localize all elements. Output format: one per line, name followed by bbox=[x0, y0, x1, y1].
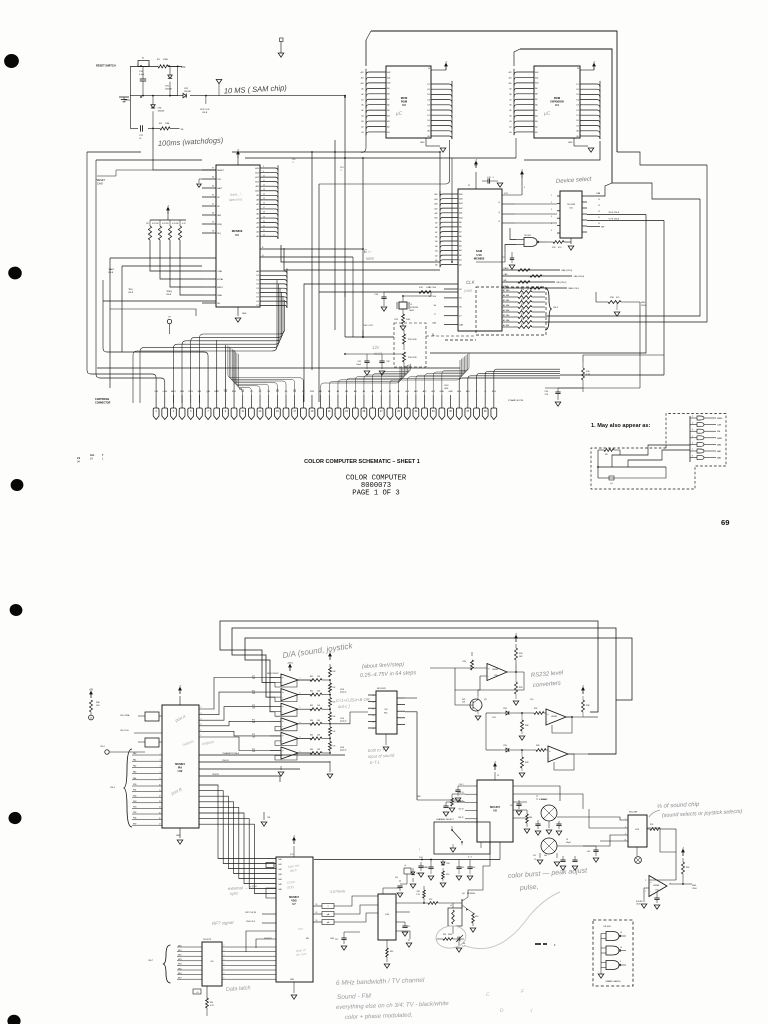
svg-text:*RS232: *RS232 bbox=[212, 774, 220, 776]
gnd u16 area bbox=[408, 939, 410, 941]
connector riser pin 7 bbox=[103, 280, 208, 395]
appear inner bus bbox=[689, 416, 691, 462]
U7 VCC bbox=[293, 846, 295, 857]
svg-text:*SCS CN-8: *SCS CN-8 bbox=[608, 212, 620, 214]
svg-text:23: 23 bbox=[263, 234, 265, 236]
svg-text:0.1μF: 0.1μF bbox=[139, 74, 145, 76]
channel select box bbox=[434, 822, 490, 854]
svg-text:CN-8: CN-8 bbox=[97, 182, 103, 185]
svg-text:15: 15 bbox=[598, 193, 600, 195]
svg-text:1: 1 bbox=[551, 195, 552, 197]
svg-text:A10: A10 bbox=[535, 82, 538, 85]
resistor R52 bbox=[428, 902, 438, 905]
svg-text:A2: A2 bbox=[256, 226, 258, 229]
svg-text:30: 30 bbox=[316, 920, 318, 922]
wire trap link bbox=[583, 845, 596, 847]
svg-text:SPARE GATES: SPARE GATES bbox=[605, 980, 621, 983]
ground top-center bbox=[280, 38, 284, 42]
ground dac 2 bbox=[280, 766, 282, 770]
svg-text:Q: Q bbox=[262, 255, 264, 257]
svg-text:47: 47 bbox=[527, 319, 529, 321]
wire U11 out 3 bbox=[587, 220, 664, 222]
svg-text:11: 11 bbox=[263, 180, 265, 182]
svg-text:MC6883: MC6883 bbox=[474, 257, 485, 261]
capacitor C46 bbox=[556, 824, 561, 826]
wire trunk h368 bbox=[97, 367, 460, 369]
U1 right data pin fan bbox=[260, 268, 287, 308]
U10 memory pins and resistor array bbox=[502, 291, 518, 293]
connector riser wires addr group 2 bbox=[390, 360, 460, 395]
svg-text:LM386: LM386 bbox=[653, 885, 660, 887]
svg-text:D0: D0 bbox=[576, 120, 578, 122]
svg-text:1N4148: 1N4148 bbox=[165, 88, 172, 90]
svg-text:R61: R61 bbox=[210, 1002, 213, 1004]
U12 ground bbox=[179, 828, 181, 838]
resistor R40 bbox=[536, 749, 546, 752]
svg-text:A0: A0 bbox=[256, 235, 258, 238]
wire rs232 inputs from left bbox=[430, 667, 455, 669]
U9 right pins bbox=[397, 698, 405, 724]
svg-text:D0: D0 bbox=[427, 120, 429, 122]
svg-text:3300: 3300 bbox=[448, 934, 452, 936]
svg-text:A7: A7 bbox=[387, 98, 389, 101]
svg-text:A11: A11 bbox=[387, 76, 390, 79]
svg-text:74LS02: 74LS02 bbox=[524, 235, 532, 237]
svg-text:CR8: CR8 bbox=[446, 863, 450, 865]
svg-text:A14: A14 bbox=[255, 171, 258, 174]
U4 right pin fan bbox=[580, 81, 600, 139]
NOR gate U5 bbox=[524, 238, 537, 247]
svg-text:R22: R22 bbox=[521, 299, 524, 301]
wire trunk v363 bbox=[362, 158, 364, 337]
svg-text:D6: D6 bbox=[256, 301, 258, 303]
svg-text:R62: R62 bbox=[390, 951, 393, 953]
svg-text:9: 9 bbox=[524, 187, 525, 189]
svg-text:R51: R51 bbox=[417, 891, 420, 893]
svg-text:5: 5 bbox=[692, 436, 693, 438]
wire trunk v304 bbox=[303, 284, 305, 402]
svg-text:latest (io): latest (io) bbox=[229, 197, 242, 202]
svg-text:GND: GND bbox=[444, 388, 449, 390]
reset switch circuit bbox=[96, 64, 182, 68]
svg-text:CR6: CR6 bbox=[503, 745, 507, 747]
wire Q2 collector bbox=[468, 852, 490, 897]
wire trunk h292 bbox=[319, 291, 458, 293]
wire trunk v335 bbox=[334, 140, 336, 330]
svg-text:11: 11 bbox=[373, 702, 375, 704]
wire sound to opamp bbox=[675, 829, 677, 880]
svg-text:CN-8: CN-8 bbox=[636, 904, 640, 906]
svg-text:RES: RES bbox=[189, 391, 194, 393]
svg-text:21: 21 bbox=[263, 225, 265, 227]
wire nmi bbox=[110, 257, 216, 259]
svg-text:A2: A2 bbox=[459, 254, 461, 257]
svg-text:A4: A4 bbox=[535, 114, 537, 117]
U10 left pins lower bbox=[444, 289, 458, 325]
wire rf out right bbox=[473, 912, 500, 914]
svg-text:A12: A12 bbox=[255, 180, 258, 183]
wire osc connects bbox=[345, 336, 394, 338]
svg-text:1N4148: 1N4148 bbox=[184, 91, 191, 93]
svg-text:R26: R26 bbox=[521, 319, 524, 321]
svg-text:R24: R24 bbox=[521, 309, 524, 311]
wire right lower frame bbox=[545, 387, 640, 389]
svg-text:R4: R4 bbox=[156, 223, 158, 225]
svg-text:RESET SWITCH: RESET SWITCH bbox=[96, 64, 116, 68]
svg-text:R54: R54 bbox=[443, 934, 446, 936]
resistor R61 bbox=[206, 998, 209, 1008]
U16 top parts cluster bbox=[383, 888, 400, 894]
connector riser wires addr group bbox=[321, 368, 400, 395]
svg-text:A5: A5 bbox=[535, 109, 537, 112]
connector riser wires data group bbox=[238, 354, 242, 395]
U16 bottom parts bbox=[386, 940, 388, 948]
svg-text:GND: GND bbox=[290, 979, 295, 981]
svg-text:12: 12 bbox=[372, 708, 374, 710]
svg-text:A8: A8 bbox=[387, 93, 389, 96]
power +5 ladder bbox=[329, 654, 332, 661]
binder hole dot 4 bbox=[9, 603, 24, 617]
svg-text:A0: A0 bbox=[427, 130, 429, 133]
svg-text:16: 16 bbox=[263, 203, 265, 205]
wire gate feedback bbox=[476, 252, 505, 262]
spare gate 2 bbox=[606, 946, 619, 955]
ground T1 bbox=[548, 821, 550, 828]
svg-text:A11: A11 bbox=[256, 185, 259, 188]
wire U9 out down bbox=[405, 712, 417, 800]
svg-text:A2: A2 bbox=[387, 125, 389, 128]
wire opamp inputs bbox=[649, 879, 676, 881]
ground reset bbox=[124, 99, 130, 101]
svg-text:FIRQ: FIRQ bbox=[217, 224, 222, 226]
resistor R34 pullup bbox=[515, 644, 517, 648]
wire rs232 tx bbox=[478, 672, 524, 696]
cartridge connector pins bbox=[153, 408, 159, 420]
svg-text:R56: R56 bbox=[650, 824, 653, 826]
svg-text:A11: A11 bbox=[435, 212, 438, 215]
resistor R50 bbox=[442, 871, 445, 879]
svg-text:A11: A11 bbox=[535, 76, 538, 79]
op-amp U13c bbox=[548, 746, 568, 762]
svg-text:COLOR COMPUTER SCHEMATIC – SHE: COLOR COMPUTER SCHEMATIC – SHEET 1 bbox=[304, 459, 420, 465]
svg-text:ALL: ALL bbox=[90, 454, 95, 457]
svg-text:RAM...",: RAM...", bbox=[230, 192, 242, 197]
svg-text:A7: A7 bbox=[503, 289, 505, 292]
svg-text:D6: D6 bbox=[427, 89, 429, 91]
svg-text:100K: 100K bbox=[163, 59, 169, 61]
svg-text:DA0: DA0 bbox=[432, 322, 436, 325]
diode CR6 bbox=[500, 749, 506, 751]
svg-text:R21: R21 bbox=[521, 294, 524, 296]
spare gate 1 bbox=[606, 932, 619, 941]
svg-text:U12: U12 bbox=[178, 769, 183, 773]
terminal circle left bbox=[89, 715, 94, 720]
svg-text:16: 16 bbox=[159, 818, 161, 820]
svg-text:CN-8: CN-8 bbox=[108, 272, 114, 274]
svg-text:μC: μC bbox=[543, 111, 551, 117]
wire data bus sweep bundle bbox=[199, 300, 284, 403]
svg-text:L1: L1 bbox=[450, 905, 452, 907]
svg-text:15: 15 bbox=[372, 728, 374, 730]
U7 left wires from latch mid bbox=[246, 931, 276, 952]
svg-text:47: 47 bbox=[527, 289, 529, 291]
svg-text:14.31818: 14.31818 bbox=[410, 307, 419, 309]
svg-text:A10: A10 bbox=[434, 217, 437, 220]
op-amp U15 bbox=[649, 876, 667, 897]
svg-text:A3: A3 bbox=[459, 249, 461, 252]
U8 left component cluster bbox=[458, 786, 465, 790]
svg-text:PA1: PA1 bbox=[133, 758, 136, 761]
svg-text:R44: R44 bbox=[310, 720, 313, 722]
wire left frame 1 bbox=[87, 151, 141, 153]
svg-text:PA4: PA4 bbox=[133, 777, 136, 780]
svg-text:3: 3 bbox=[551, 209, 552, 211]
resistor R2 bbox=[160, 127, 170, 130]
svg-text:PB2: PB2 bbox=[133, 795, 136, 797]
svg-text:*CHARACTROM A: *CHARACTROM A bbox=[222, 752, 240, 755]
svg-text:14: 14 bbox=[372, 722, 374, 724]
components right of U16 bbox=[404, 922, 406, 926]
svg-text:SND: SND bbox=[692, 885, 697, 887]
IC U1 MC6809 CPU bbox=[216, 165, 260, 307]
appear gates bbox=[690, 417, 697, 419]
svg-text:11: 11 bbox=[159, 790, 161, 792]
wire trunk h283 bbox=[304, 283, 458, 285]
svg-text:19: 19 bbox=[263, 216, 265, 218]
svg-text:A14: A14 bbox=[459, 198, 462, 201]
U1 left pins lower bbox=[202, 271, 216, 303]
svg-text:C: C bbox=[486, 992, 490, 998]
svg-text:pulse,: pulse, bbox=[519, 884, 539, 892]
svg-text:L3: L3 bbox=[566, 839, 568, 841]
wire U13c out bbox=[568, 753, 616, 755]
brace memory bus bbox=[545, 288, 552, 330]
svg-text:47: 47 bbox=[527, 299, 529, 301]
svg-text:CN-8: CN-8 bbox=[166, 294, 172, 296]
svg-text:A9: A9 bbox=[459, 221, 461, 224]
svg-text:A1: A1 bbox=[459, 259, 461, 262]
svg-text:U7: U7 bbox=[292, 902, 296, 906]
spare gates bus bbox=[600, 934, 602, 971]
svg-text:6: 6 bbox=[692, 442, 693, 444]
svg-text:.1: .1 bbox=[340, 170, 342, 172]
svg-text:C49: C49 bbox=[587, 851, 590, 853]
svg-text:CN-8 CLK: CN-8 CLK bbox=[246, 921, 256, 923]
svg-text:OSC OUT: OSC OUT bbox=[363, 325, 374, 327]
svg-text:VDG: VDG bbox=[291, 899, 297, 903]
svg-text:A12: A12 bbox=[387, 71, 390, 74]
svg-text:A6: A6 bbox=[503, 294, 505, 297]
ground ladder bbox=[329, 761, 331, 772]
svg-text:R40: R40 bbox=[536, 745, 539, 747]
capacitor C47 bbox=[518, 800, 520, 804]
resistor R58 vertical bbox=[682, 862, 685, 874]
svg-text:+5V: +5V bbox=[89, 689, 94, 692]
dashed box appear upper bbox=[666, 414, 726, 467]
svg-text:A5: A5 bbox=[503, 299, 505, 302]
brace CN-1 bbox=[124, 749, 133, 827]
svg-text:13: 13 bbox=[372, 715, 374, 717]
svg-text:C61 10: C61 10 bbox=[458, 792, 463, 794]
svg-text:A6: A6 bbox=[387, 104, 389, 107]
svg-text:3.58: 3.58 bbox=[419, 857, 423, 859]
resistor R38 pullup bbox=[582, 700, 585, 712]
svg-text:R45: R45 bbox=[310, 734, 313, 736]
U7 right pins upper bbox=[313, 905, 322, 907]
svg-text:8: 8 bbox=[692, 456, 693, 458]
U12 right pins DAC bundle bbox=[199, 678, 281, 710]
device select caps bbox=[511, 252, 513, 258]
svg-text:both to +: both to + bbox=[368, 747, 385, 753]
svg-text:14: 14 bbox=[263, 194, 265, 196]
svg-text:A5: A5 bbox=[387, 109, 389, 112]
wire reset to CPU bbox=[153, 128, 216, 170]
U11 gnd bbox=[570, 238, 572, 244]
bold dashes bbox=[535, 943, 541, 945]
U6 bottom pin bbox=[206, 986, 208, 998]
dashed wire below bbox=[445, 339, 476, 341]
transistor Q2 bbox=[461, 899, 463, 908]
svg-text:*CTS CN-8: *CTS CN-8 bbox=[608, 219, 620, 221]
svg-text:A13: A13 bbox=[459, 202, 462, 205]
svg-text:A0: A0 bbox=[576, 130, 578, 133]
svg-text:MD1: MD1 bbox=[178, 950, 182, 952]
svg-text:A9: A9 bbox=[256, 194, 258, 197]
capacitor C11 bbox=[141, 125, 143, 131]
capacitor C48 bbox=[656, 892, 658, 898]
resistor R36 bbox=[521, 716, 523, 720]
svg-text:DMA: DMA bbox=[217, 294, 222, 297]
binder hole dot 3 bbox=[10, 478, 24, 492]
svg-text:CN-1: CN-1 bbox=[110, 787, 116, 789]
svg-text:D6: D6 bbox=[576, 89, 578, 91]
svg-text:GND: GND bbox=[176, 835, 181, 837]
svg-text:R3: R3 bbox=[146, 223, 148, 225]
svg-text:MC6847: MC6847 bbox=[289, 895, 299, 899]
svg-text:MD0: MD0 bbox=[178, 945, 182, 947]
U9 ground bbox=[385, 734, 387, 745]
svg-text:RAS1 CN-2: RAS1 CN-2 bbox=[569, 287, 580, 290]
U4 ground bbox=[573, 138, 575, 146]
svg-text:R46: R46 bbox=[310, 749, 313, 751]
feedback U13b bbox=[552, 717, 572, 733]
svg-text:CN-8: CN-8 bbox=[340, 689, 344, 691]
svg-text:E←: E← bbox=[364, 249, 373, 255]
svg-text:C45: C45 bbox=[533, 855, 536, 857]
svg-text:C53: C53 bbox=[423, 867, 426, 869]
svg-text:47: 47 bbox=[527, 294, 529, 296]
svg-text:.1: .1 bbox=[292, 162, 294, 164]
IC U10 SAM MC6883 bbox=[458, 189, 502, 331]
transformer T1 bbox=[541, 805, 557, 821]
svg-text:A6: A6 bbox=[535, 104, 537, 107]
binder hole dot 6 bbox=[7, 1015, 20, 1027]
ground TSC pin bbox=[199, 178, 202, 180]
svg-text:A5: A5 bbox=[435, 240, 437, 243]
transformer T2 bbox=[541, 838, 557, 854]
binder hole dot 1 bbox=[3, 53, 20, 70]
svg-text:A13: A13 bbox=[434, 203, 437, 206]
svg-text:7: 7 bbox=[692, 449, 693, 451]
diode CR3 bbox=[183, 93, 186, 97]
IC U7 VDG MC6847 bbox=[276, 857, 313, 982]
svg-text:NMI: NMI bbox=[180, 391, 184, 393]
op-amp U13a bbox=[487, 664, 507, 681]
svg-text:CN-8: CN-8 bbox=[202, 112, 208, 114]
U3 VCC pin bbox=[431, 69, 446, 71]
brace latch bbox=[163, 945, 171, 983]
svg-text:CLK: CLK bbox=[466, 279, 476, 285]
dashed option box 1 bbox=[476, 287, 546, 335]
svg-text:E-T-L: E-T-L bbox=[370, 759, 381, 765]
svg-text:31: 31 bbox=[212, 204, 214, 206]
U7 right pins to modulator bbox=[334, 896, 378, 906]
connector riser wires pins 1-2 bbox=[87, 152, 156, 395]
svg-text:P1 AMP 40 PIN: P1 AMP 40 PIN bbox=[508, 399, 524, 402]
svg-text:D3: D3 bbox=[576, 105, 578, 107]
svg-text:C51: C51 bbox=[407, 926, 410, 928]
svg-text:R37: R37 bbox=[534, 708, 537, 710]
svg-text:10μF: 10μF bbox=[356, 364, 361, 366]
svg-text:U3: U3 bbox=[402, 103, 406, 107]
svg-text:R15 4700: R15 4700 bbox=[408, 339, 418, 341]
svg-text:+5V: +5V bbox=[181, 66, 186, 69]
svg-text:47: 47 bbox=[527, 304, 529, 306]
svg-text:30: 30 bbox=[212, 213, 214, 215]
svg-text:μC: μC bbox=[395, 111, 403, 117]
svg-text:PB1: PB1 bbox=[133, 790, 136, 792]
feedback U13c bbox=[554, 754, 574, 770]
svg-text:S0: S0 bbox=[434, 305, 436, 307]
svg-text:C15: C15 bbox=[292, 159, 295, 161]
svg-text:47: 47 bbox=[527, 309, 529, 311]
binder hole dot 5 bbox=[8, 811, 23, 825]
svg-text:C42: C42 bbox=[472, 867, 475, 869]
svg-text:R43: R43 bbox=[310, 705, 313, 707]
switch S1 bbox=[452, 830, 461, 840]
ground crystal bbox=[400, 326, 406, 330]
U7 jumper on pin bbox=[266, 863, 274, 868]
U6 right pins bbox=[222, 946, 276, 948]
U1 VCC bbox=[237, 158, 239, 165]
wire opamp U15 out bbox=[669, 883, 692, 885]
svg-text:*FIRQ: *FIRQ bbox=[166, 291, 172, 293]
svg-text:9600: 9600 bbox=[366, 257, 374, 261]
svg-text:A9: A9 bbox=[435, 221, 437, 224]
svg-text:74LS02: 74LS02 bbox=[603, 926, 611, 928]
svg-text:A1: A1 bbox=[535, 131, 537, 134]
DAC series resistors bbox=[297, 679, 310, 681]
svg-text:29: 29 bbox=[212, 222, 214, 224]
resistor R33 input bbox=[455, 667, 472, 669]
wire U11 out 2 bbox=[587, 214, 646, 216]
svg-text:A6: A6 bbox=[435, 236, 437, 239]
svg-text:14: 14 bbox=[598, 199, 600, 201]
svg-text:17: 17 bbox=[263, 207, 265, 209]
wire trap bus top bbox=[527, 786, 560, 801]
svg-text:22: 22 bbox=[468, 185, 470, 187]
svg-text:CN-8: CN-8 bbox=[444, 385, 448, 387]
U11 right pins bbox=[582, 196, 587, 232]
res R63 bbox=[370, 940, 381, 944]
resistor R30 bbox=[90, 700, 93, 712]
svg-text:RW: RW bbox=[601, 227, 604, 229]
svg-text:GND: GND bbox=[568, 142, 573, 144]
svg-text:R25: R25 bbox=[521, 314, 524, 316]
U4 left pin fan bbox=[514, 69, 534, 135]
svg-text:HALT: HALT bbox=[171, 390, 177, 393]
resistor R53 bbox=[468, 910, 473, 914]
